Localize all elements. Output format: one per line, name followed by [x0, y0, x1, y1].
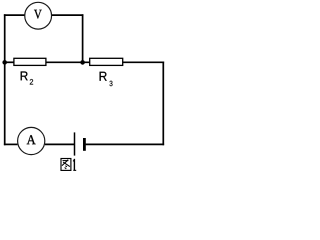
label R2 [21, 71, 33, 84]
voltmeter V [25, 2, 52, 29]
caption glyph 图 (figure) [61, 159, 71, 171]
wire: battery to ammeter [45, 143, 75, 145]
resistor R3 [90, 58, 123, 65]
ammeter A [18, 127, 45, 154]
wire: top-left horizontal to voltmeter [4, 14, 25, 16]
wire: right vertical bus [162, 62, 164, 146]
caption text 1 [73, 159, 76, 170]
node: junction dot middle [80, 60, 85, 65]
wire: left vertical bus [4, 14, 6, 145]
wire: resistor row, left segment [4, 61, 15, 63]
resistor R2 [14, 58, 46, 65]
node: junction dot left [2, 60, 7, 65]
wire: bottom right horizontal [86, 143, 165, 145]
wire: ammeter to left bus [4, 143, 18, 145]
wire: resistor row, middle segment [46, 61, 90, 63]
label R3 [100, 72, 113, 86]
wire: right vertical of voltmeter branch [82, 14, 84, 62]
wire: voltmeter to top-right corner [52, 14, 84, 16]
battery cell [75, 132, 86, 155]
wire: resistor row, right segment [123, 61, 164, 63]
